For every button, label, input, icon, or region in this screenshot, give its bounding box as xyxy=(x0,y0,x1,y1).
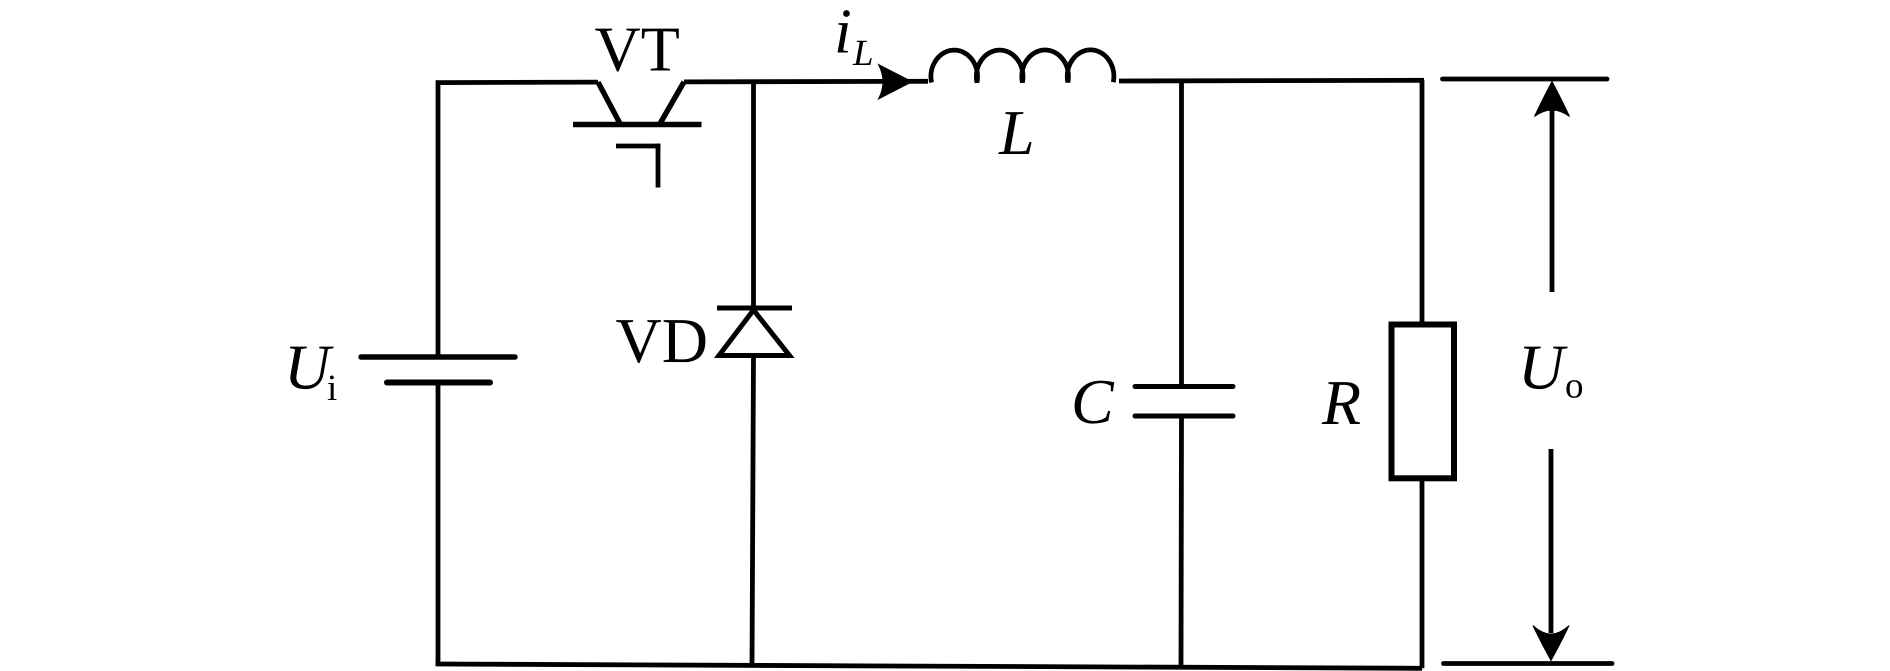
current arrow iL xyxy=(879,65,913,100)
svg-text:i: i xyxy=(327,368,337,409)
svg-text:L: L xyxy=(852,33,874,74)
diode VD xyxy=(717,308,792,356)
wire left lower (battery to bottom rail) xyxy=(436,383,441,667)
battery Ui xyxy=(361,357,515,383)
Uo marker bottom rail xyxy=(1444,661,1613,666)
wire diode branch upper xyxy=(751,82,756,310)
svg-text:C: C xyxy=(1071,366,1115,437)
svg-text:i: i xyxy=(834,0,852,67)
Uo marker top rail xyxy=(1443,77,1608,82)
Uo down arrow xyxy=(1549,449,1554,633)
svg-text:VD: VD xyxy=(616,305,708,376)
resistor R xyxy=(1392,325,1455,479)
wire top-left (Ui+ to VT collector) xyxy=(438,82,598,357)
wire top-mid (VT emitter to inductor) xyxy=(684,79,928,84)
inductor L xyxy=(931,50,1114,83)
svg-text:L: L xyxy=(998,97,1035,168)
wire capacitor branch upper xyxy=(1179,81,1184,387)
svg-text:U: U xyxy=(1518,331,1568,402)
transistor VT xyxy=(573,82,702,188)
wire resistor branch lower xyxy=(1420,478,1425,668)
wire diode branch lower xyxy=(752,356,754,667)
wire capacitor branch lower xyxy=(1179,416,1184,667)
capacitor C xyxy=(1135,387,1233,417)
svg-text:R: R xyxy=(1321,367,1361,438)
svg-text:VT: VT xyxy=(595,14,680,85)
wire top-right (inductor to resistor corner) xyxy=(1119,78,1424,83)
svg-text:o: o xyxy=(1565,366,1584,407)
Uo up arrow xyxy=(1550,108,1555,292)
wire bottom rail xyxy=(436,664,1422,668)
wire resistor branch upper xyxy=(1420,80,1425,324)
